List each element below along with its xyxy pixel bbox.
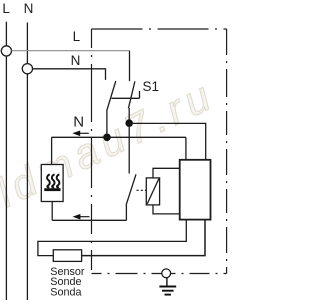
- enclosure border top (dash-dot): [92, 28, 227, 30]
- svg-text:L: L: [73, 29, 81, 44]
- switch S1 linkage bar: [112, 91, 140, 98]
- heater H1 box: [41, 165, 63, 202]
- sensor box: [53, 250, 81, 262]
- relay contact feed: [128, 123, 130, 173]
- svg-text:N: N: [24, 1, 34, 16]
- enclosure border bottom (dash-dot): [92, 273, 227, 275]
- wire L vertical: [5, 22, 7, 300]
- switch S1 pole 2 blade: [128, 81, 135, 108]
- svg-text:Sonda: Sonda: [50, 286, 81, 298]
- wire coil bottom: [153, 205, 180, 214]
- relay coil K1: [146, 178, 159, 205]
- wire N vertical: [26, 23, 28, 300]
- terminal circle N: [22, 64, 32, 74]
- svg-text:S1: S1: [143, 79, 160, 94]
- switch S1 pole 1 top contact: [105, 68, 107, 80]
- svg-text:N: N: [73, 113, 84, 130]
- relay linkage (dashed): [137, 189, 147, 191]
- heater element symbol: [44, 174, 60, 191]
- svg-text:L: L: [2, 1, 10, 16]
- terminal circle L: [1, 46, 11, 56]
- svg-text:N: N: [71, 53, 81, 68]
- wire L feed (gray): [12, 50, 130, 52]
- wire N feed: [33, 68, 106, 70]
- earth terminal circle: [162, 269, 171, 278]
- wire sensor to block (right): [82, 220, 205, 256]
- wire heater bottom: [51, 202, 53, 221]
- node dot N: [103, 134, 111, 142]
- electronics block U1: [180, 160, 211, 220]
- arrow to heater (upper): [72, 131, 89, 137]
- arrow to heater (lower): [73, 214, 90, 220]
- wire N node horizontal: [52, 136, 186, 138]
- wire coil top: [153, 168, 180, 178]
- switch S1 pole 2 top contact: [129, 51, 131, 81]
- switch S1 pole 1 blade: [107, 81, 116, 110]
- enclosure border right (dash-dot): [226, 29, 228, 274]
- wire heater drop: [51, 137, 53, 164]
- node dot L: [125, 119, 133, 127]
- relay contact blade: [126, 174, 136, 205]
- wire return horizontal: [52, 219, 126, 221]
- watermark: [0, 70, 222, 216]
- wire block to sensor (left): [38, 220, 186, 256]
- ground symbol: [159, 278, 176, 295]
- wire N stub to block: [185, 137, 187, 160]
- enclosure border left (dash-dot): [91, 29, 93, 274]
- switch S1 pole 2 lower wire: [128, 108, 130, 123]
- wire relay output: [125, 205, 127, 220]
- wire L branch to block: [129, 123, 206, 159]
- switch S1 pole 1 lower wire: [106, 110, 108, 137]
